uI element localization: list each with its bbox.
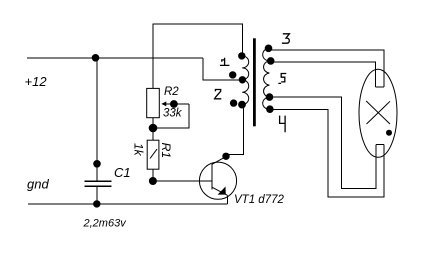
node junction R2 / R1 / wiper <box>149 124 158 133</box>
node junction +12 rail / C1 branch <box>92 54 100 62</box>
svg-text:R1: R1 <box>159 143 173 159</box>
label pin 4 <box>280 116 286 133</box>
transistor VT1 emitter lead with arrow <box>212 187 227 195</box>
wire pin 5 to lamp bottom electrode left leg <box>270 97 377 188</box>
node dot above capacitor C1 <box>93 160 101 168</box>
node transformer pin 1 dot <box>238 52 245 59</box>
transformer T1 secondary winding <box>263 48 270 109</box>
node transformer pin 5 area dot <box>266 93 274 101</box>
node transformer pin 2 dots <box>229 71 236 78</box>
wire pin 4 to lamp bottom electrode right leg <box>270 109 384 196</box>
label pin 5 <box>278 74 286 84</box>
lamp dot mark <box>386 130 392 136</box>
wire collector to transformer primary bottom <box>226 105 243 155</box>
svg-text:1k: 1k <box>132 143 146 157</box>
node transformer secondary tap dot below 3 <box>267 57 275 65</box>
wire R1 bottom to base <box>152 169 154 181</box>
capacitor C1 <box>85 181 112 186</box>
wire secondary tap to lamp top electrode left leg <box>271 62 376 87</box>
node transformer pin 4 dot <box>266 105 274 113</box>
transformer T1 primary winding <box>242 56 249 105</box>
lamp bottom electrode bar <box>376 144 384 146</box>
svg-text:gnd: gnd <box>27 177 49 192</box>
lamp EL1 envelope <box>359 69 397 157</box>
transformer core <box>253 38 256 126</box>
wire C1 branch from +12 rail down to capacitor <box>96 58 98 181</box>
lamp cross mark <box>366 101 390 124</box>
node transformer bottom pin dots <box>230 99 237 106</box>
node junction R1 bottom / base wire <box>149 177 157 185</box>
wire +12 supply rail <box>27 57 203 59</box>
wiper arrow of trimmer R2 <box>165 103 190 105</box>
wire top link from R2 top to transformer pin 1 <box>153 24 242 88</box>
transistor VT1 collector lead <box>212 157 226 165</box>
wire R2 bottom to R1 top <box>152 118 154 141</box>
svg-text:R2: R2 <box>164 86 179 98</box>
wire ground rail <box>28 203 228 205</box>
svg-text:C1: C1 <box>114 165 131 180</box>
node transformer pin 3 dot <box>265 45 273 53</box>
wire pin 3 to lamp top electrode right leg <box>269 50 384 87</box>
svg-text:2,2m63v: 2,2m63v <box>83 218 128 230</box>
wire emitter to ground rail <box>226 195 228 204</box>
transistor VT1 circle <box>199 162 236 199</box>
svg-text:+12: +12 <box>25 74 48 89</box>
node dot on wiper wire <box>170 100 178 108</box>
node junction C1 / ground rail <box>93 200 100 207</box>
lamp top electrode bar <box>376 86 384 88</box>
transistor VT1 base bar <box>211 164 213 190</box>
label pin 2 <box>214 90 222 99</box>
wire base <box>153 180 212 182</box>
resistor R1 <box>147 140 159 169</box>
resistor R2 <box>147 88 160 117</box>
node collector junction dot <box>222 153 229 160</box>
wire wiper return to R2 bottom <box>154 104 190 128</box>
label pin 1 <box>220 58 230 66</box>
wire C1 bottom to ground rail <box>96 186 98 204</box>
label pin 3 <box>282 34 290 43</box>
svg-text:33k: 33k <box>163 108 183 120</box>
svg-text:VT1 d772: VT1 d772 <box>234 194 284 206</box>
wire +12 rail to transformer pin 2 <box>203 58 242 80</box>
